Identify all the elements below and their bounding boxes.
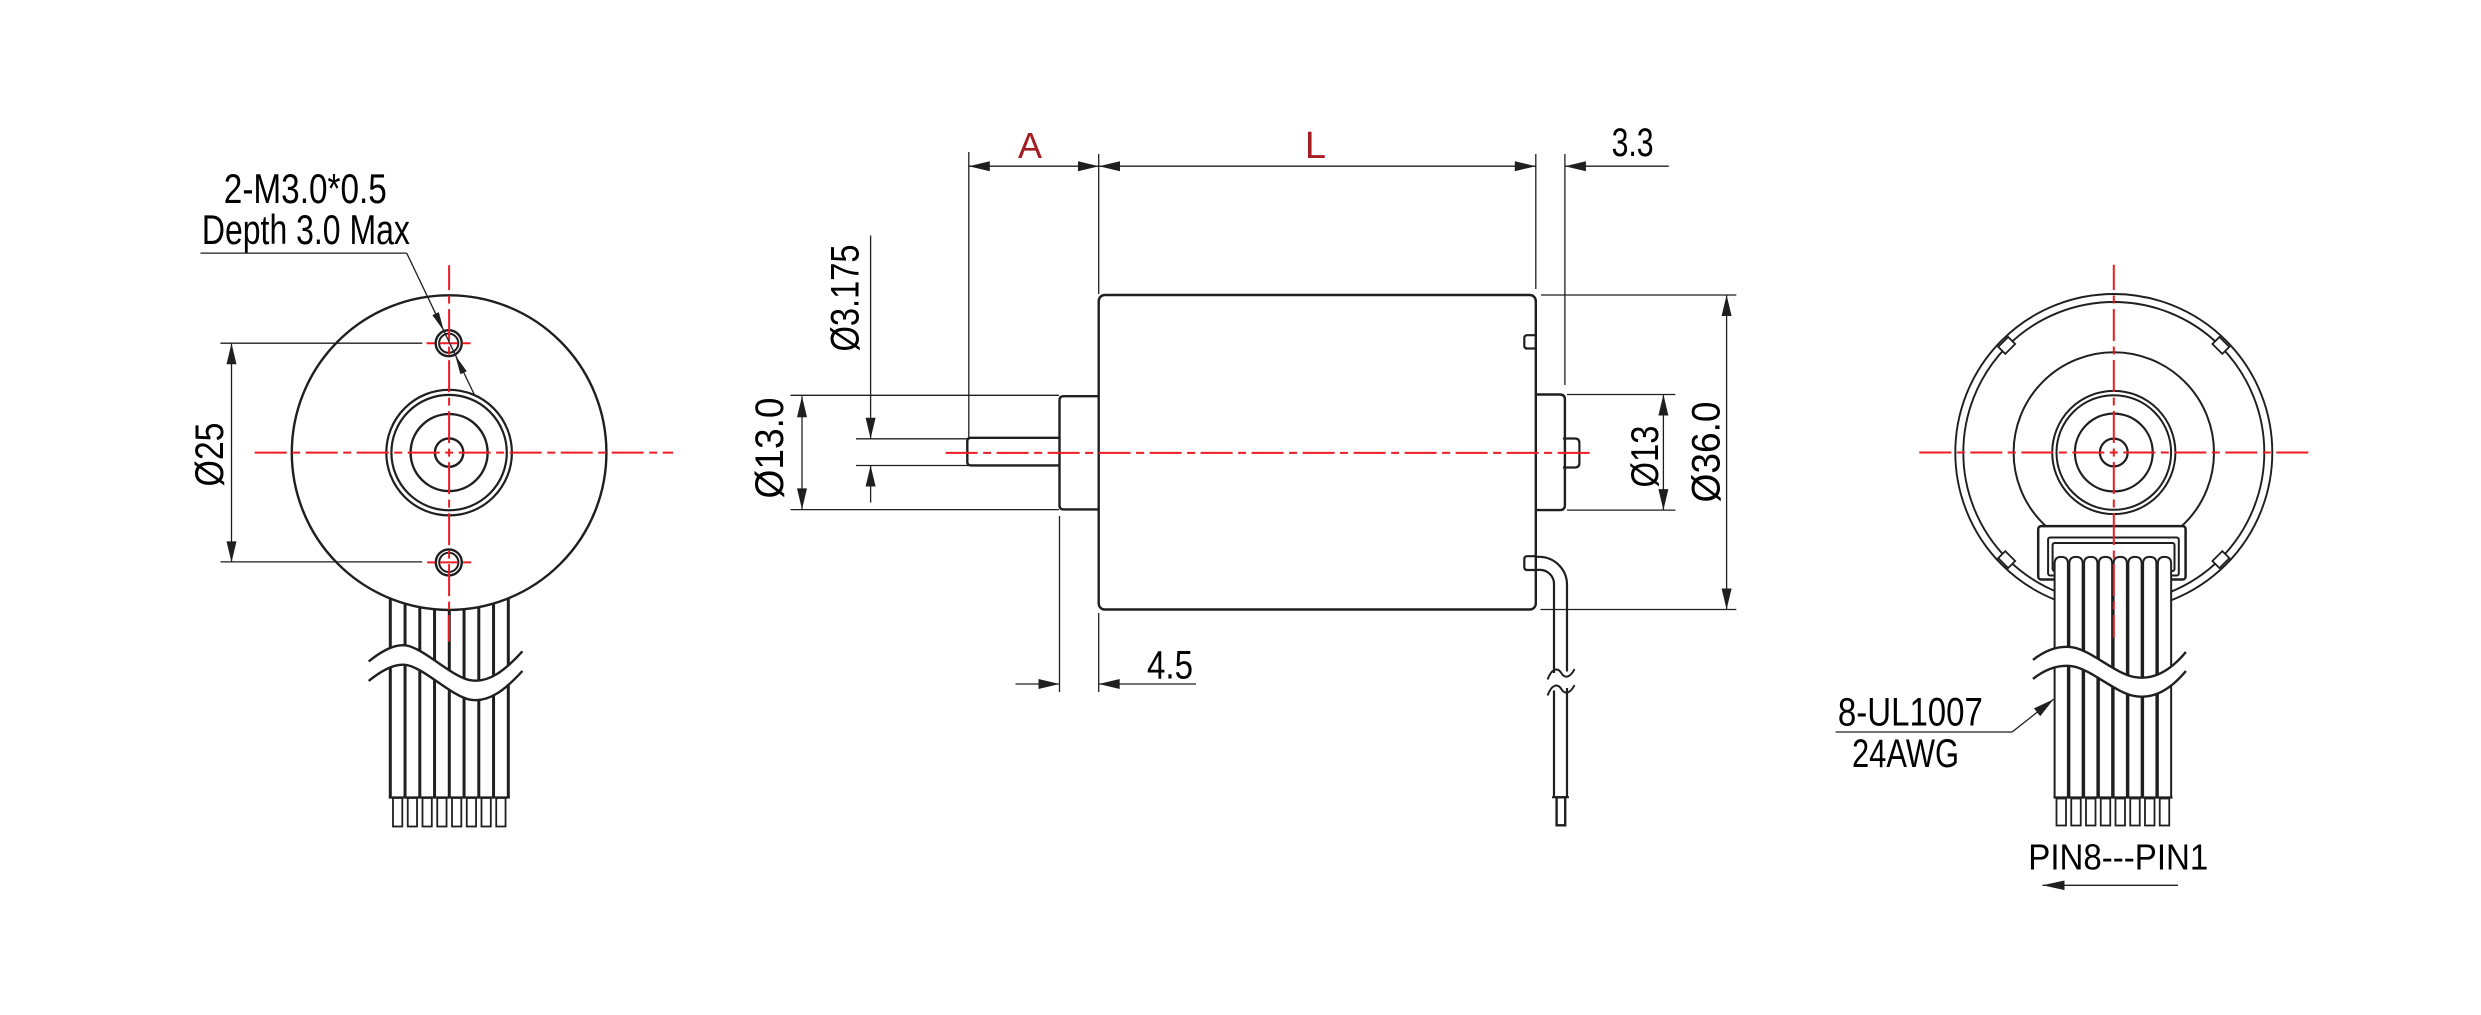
dim 3.3 line	[1565, 165, 1669, 167]
wire stripped tip	[1557, 797, 1566, 825]
bearing circle	[2075, 414, 2153, 492]
svg-text:A: A	[1018, 125, 1042, 166]
rim notch top-left	[1998, 337, 2015, 354]
dim A/L shared extension line	[1098, 154, 1100, 294]
note leader diagonal	[407, 253, 475, 395]
dim 4.5 extension lines	[1059, 516, 1061, 692]
dim A extension line left	[968, 152, 970, 438]
boss inner circle	[2057, 395, 2172, 510]
dim A line	[969, 165, 1099, 167]
red centerline horizontal right	[1919, 452, 2311, 454]
front cap	[1060, 396, 1111, 509]
tab bottom on rear edge	[1524, 556, 1537, 570]
dim L line	[1099, 165, 1536, 167]
svg-text:3.3: 3.3	[1612, 121, 1654, 165]
boss inner circle	[391, 395, 506, 510]
dim Ø3.175 line lower	[870, 466, 872, 503]
pins row (8 pin ends)	[393, 798, 506, 827]
rear shaft stub	[1563, 439, 1579, 468]
red centerline horizontal	[255, 452, 673, 454]
dim Ø13 line	[1662, 395, 1664, 511]
rim notch bottom-right	[2212, 551, 2229, 568]
boss outer circle	[2052, 391, 2175, 514]
red centermark bottom hole	[427, 561, 472, 563]
bearing circle	[411, 414, 488, 491]
note leader underline right	[1836, 731, 2013, 733]
boss outer circle	[386, 390, 512, 516]
tab top on rear edge	[1524, 335, 1537, 348]
svg-text:L: L	[1305, 125, 1326, 167]
wire bundle lines (8 lead wires)	[390, 555, 508, 798]
red centerline vertical right	[2113, 265, 2115, 638]
leader arrowhead at hole bottom-right	[455, 355, 467, 374]
motor front face circle	[292, 295, 607, 610]
dim 4.5 line	[1016, 683, 1060, 685]
dim Ø3.175 extension lines	[856, 438, 968, 440]
dim Ø13.0 extension lines	[791, 394, 1060, 396]
wire break tilde lower	[1548, 685, 1575, 696]
svg-text:Ø13: Ø13	[1624, 426, 1667, 488]
cable break squiggle	[369, 645, 523, 700]
bundle bottom edge right	[2054, 796, 2173, 798]
svg-text:PIN8---PIN1: PIN8---PIN1	[2028, 837, 2208, 878]
lead wire outer edge	[1536, 557, 1567, 672]
screw hole bottom (M3)	[436, 549, 462, 575]
wire break tilde upper	[1548, 669, 1575, 680]
leader arrowhead at hole top-left	[432, 312, 444, 331]
svg-text:24AWG: 24AWG	[1852, 732, 1959, 776]
dim Ø13.0 line	[801, 396, 803, 509]
connector housing inner second	[2053, 543, 2175, 571]
front shaft	[967, 438, 1065, 466]
dim L extension line right	[1535, 154, 1537, 289]
shaft circle	[2100, 439, 2128, 467]
note leader underline	[201, 252, 407, 254]
dim Ø3.175 line upper	[870, 236, 872, 439]
cable break squiggle right	[2033, 647, 2186, 697]
svg-text:Ø36.0: Ø36.0	[1685, 402, 1729, 503]
svg-text:8-UL1007: 8-UL1007	[1838, 691, 1983, 735]
dim Ø25 dimension line	[231, 343, 233, 562]
red centerline vertical	[448, 265, 450, 641]
lead wire inner edge	[1536, 570, 1554, 673]
leader arrowhead at bundle	[2034, 699, 2054, 716]
dim 3.3 extension line	[1564, 154, 1566, 385]
dim Ø25 extension lines	[220, 342, 422, 344]
note leader diagonal right	[2012, 699, 2054, 732]
connector housing inner	[2048, 538, 2179, 576]
connector housing outer	[2038, 526, 2185, 579]
wire lower segment	[1554, 688, 1567, 797]
rear housing rim circle	[1963, 302, 2264, 603]
svg-text:Ø3.175: Ø3.175	[823, 245, 867, 352]
red centermark top hole	[427, 342, 471, 344]
pin order arrowhead	[2043, 881, 2065, 891]
rear housing outer circle	[1955, 294, 2272, 611]
dim Ø36.0 extension lines	[1541, 294, 1736, 296]
pin order arrow line	[2043, 884, 2179, 886]
red centerline middle view	[946, 452, 1592, 454]
stator circle	[2014, 352, 2214, 552]
svg-text:Ø13.0: Ø13.0	[748, 398, 792, 499]
screw hole top (M3)	[436, 330, 462, 356]
wire end shoulder	[1552, 796, 1569, 798]
rim notch bottom-left	[1998, 551, 2015, 568]
rim notch top-right	[2212, 337, 2229, 354]
shaft circle	[435, 438, 463, 466]
svg-text:Ø25: Ø25	[188, 423, 232, 487]
dim Ø36.0 line	[1726, 295, 1728, 610]
rear cap	[1530, 395, 1565, 511]
svg-text:4.5: 4.5	[1147, 644, 1193, 688]
dim Ø13 extension lines	[1567, 394, 1675, 396]
bundle bottom edge	[389, 796, 510, 798]
motor body	[1099, 295, 1536, 610]
8 wires with rounded tops	[2055, 557, 2172, 798]
pins row right	[2057, 799, 2170, 826]
svg-text:Depth 3.0 Max: Depth 3.0 Max	[202, 206, 410, 253]
